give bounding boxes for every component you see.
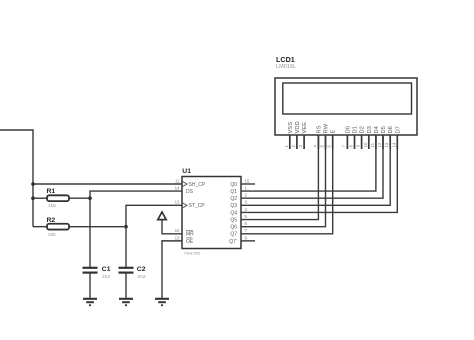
resistor R2 [33,224,126,230]
wire Q6 to LCD RW [241,135,326,227]
op IC U1 74HC595 body [182,177,241,249]
svg-text:3: 3 [298,145,303,148]
svg-text:Q0: Q0 [230,182,237,188]
svg-text:15: 15 [245,178,250,183]
svg-text:D3: D3 [367,126,373,133]
svg-text:11: 11 [370,142,375,147]
node junction R2/C2/ST_CP [124,225,128,229]
svg-text:13: 13 [175,235,180,240]
svg-text:10: 10 [175,228,180,233]
pin stub LCD VEE pin 3 [303,135,305,149]
svg-text:SH_CP: SH_CP [189,182,206,188]
svg-text:12: 12 [377,142,382,147]
pin stub Q7' pin 9 [241,240,255,242]
svg-text:VSS: VSS [288,122,294,134]
svg-text:4: 4 [245,207,248,212]
pin stub LCD D7 pin 14 [396,135,398,149]
clock triangle ST_CP [182,203,187,209]
svg-text:7: 7 [341,145,346,148]
pin stub Q0 pin 15 [241,183,255,185]
svg-text:LCD1: LCD1 [276,55,295,64]
ground below OE [155,299,169,307]
capacitor C1 [83,198,98,299]
pin stub LCD D3 pin 10 [368,135,370,149]
svg-text:R2: R2 [47,217,56,224]
node junction at trunk/SH_CP [31,182,35,186]
svg-text:Q7: Q7 [230,232,237,238]
clock triangle SH_CP [182,181,187,187]
wire input net from left edge [0,130,33,227]
wire Q2 to LCD D5 [241,135,383,198]
capacitor C2 [119,227,134,299]
svg-text:Q7’: Q7’ [229,239,237,245]
power terminal +V arrow to MR [158,212,182,234]
svg-text:C2: C2 [137,266,146,273]
wire Q7 to LCD E [241,135,333,234]
svg-text:LM016L: LM016L [276,64,296,70]
pin stub LCD D6 pin 13 [389,135,391,149]
svg-text:1k5: 1k5 [48,203,56,209]
svg-text:Q6: Q6 [230,225,237,231]
svg-text:RS: RS [316,125,322,133]
svg-text:3: 3 [245,200,248,205]
pin stub LCD D5 pin 12 [382,135,384,149]
wire OE net to ground [162,241,182,299]
wire Q3 to LCD D6 [241,135,390,205]
svg-text:D6: D6 [388,126,394,133]
svg-text:Q1: Q1 [230,189,237,195]
resistor R1 [33,195,90,201]
node junction at trunk/R1 [31,196,35,200]
svg-text:9: 9 [356,145,361,148]
svg-text:2n2: 2n2 [102,274,110,280]
wire SH_CP net [33,183,182,185]
svg-text:DS: DS [186,189,194,195]
svg-text:D4: D4 [374,125,380,133]
pin stub LCD RW pin 5 [325,135,327,149]
svg-text:8: 8 [349,145,354,148]
pin stub LCD VSS pin 1 [289,135,291,149]
svg-text:Q3: Q3 [230,203,237,209]
svg-text:7: 7 [245,228,248,233]
ground below C2 [119,299,133,307]
ground below C1 [83,299,97,307]
wire Q5 to LCD RS [241,135,318,220]
wire DS net from R1/C1 junction [90,191,182,198]
svg-text:5: 5 [320,145,325,148]
LCD screen window [283,83,412,114]
wire Q1 to LCD D4 [241,135,376,191]
svg-text:5: 5 [245,214,248,219]
svg-text:VEE: VEE [302,122,308,134]
svg-text:9: 9 [245,235,248,240]
wire ST_CP net from R2/C2 junction [126,205,182,226]
svg-text:ST_CP: ST_CP [189,203,206,209]
svg-text:D2: D2 [360,126,366,133]
svg-text:MR: MR [186,232,194,238]
wire Q4 to LCD D7 [241,135,397,212]
svg-text:2: 2 [291,145,296,148]
pin stub LCD E pin 6 [332,135,334,149]
svg-text:14: 14 [175,186,180,191]
pin stub LCD D2 pin 9 [361,135,363,149]
svg-text:10: 10 [363,142,368,147]
svg-text:Q4: Q4 [230,210,237,216]
svg-text:1: 1 [245,186,248,191]
svg-text:1: 1 [284,145,289,148]
pin stub LCD VDD pin 2 [296,135,298,149]
svg-text:E: E [331,130,337,134]
svg-text:D1: D1 [353,126,359,133]
svg-text:Q2: Q2 [230,196,237,202]
pin stub LCD D4 pin 11 [375,135,377,149]
svg-text:74HC595: 74HC595 [184,250,200,255]
svg-text:D5: D5 [381,126,387,133]
svg-text:2: 2 [245,193,248,198]
svg-text:D7: D7 [395,126,401,133]
svg-text:4: 4 [312,145,317,148]
svg-text:2n2: 2n2 [138,274,146,280]
svg-text:13: 13 [384,142,389,147]
svg-text:6: 6 [327,145,332,148]
svg-text:C1: C1 [102,266,111,273]
node junction R1/C1/DS [88,196,92,200]
pin stub LCD D0 pin 7 [346,135,348,149]
svg-text:33k: 33k [48,232,56,238]
pin stub LCD D1 pin 8 [354,135,356,149]
svg-text:11: 11 [175,178,180,183]
pin stub LCD RS pin 4 [317,135,319,149]
svg-text:D0: D0 [345,126,351,133]
svg-text:Q5: Q5 [230,217,237,223]
pin name OE with overline [186,238,194,245]
svg-text:RW: RW [324,123,330,133]
svg-text:U1: U1 [182,168,191,175]
svg-text:OE: OE [186,239,194,245]
pin name MR with overline [186,231,194,238]
svg-text:VDD: VDD [295,121,301,133]
svg-text:R1: R1 [47,188,56,195]
svg-text:12: 12 [175,200,180,205]
svg-text:6: 6 [245,221,248,226]
svg-text:14: 14 [391,142,396,147]
LCD display LCD1 body [275,78,417,135]
